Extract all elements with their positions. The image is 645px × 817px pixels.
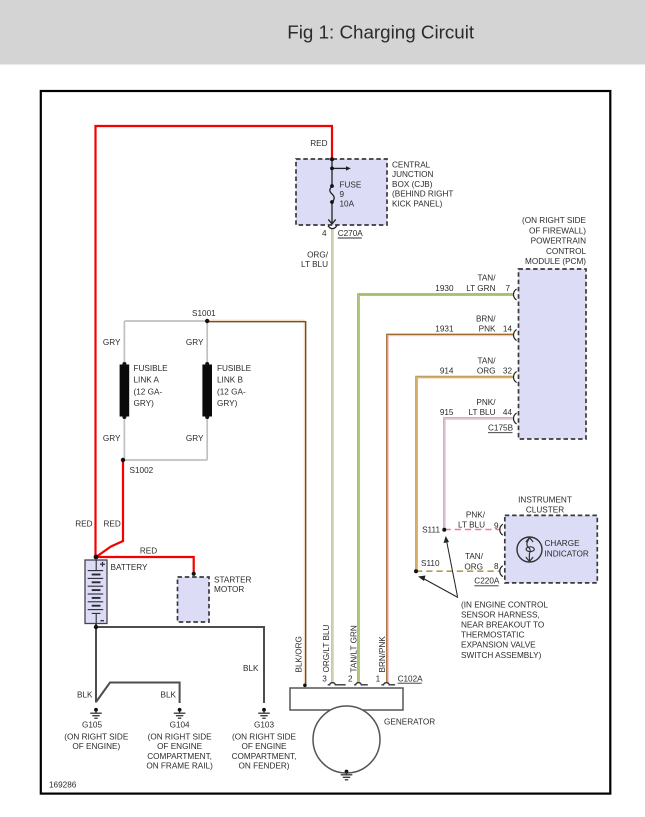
svg-text:S111: S111	[422, 526, 440, 535]
svg-text:INDICATOR: INDICATOR	[545, 549, 589, 558]
svg-text:POWERTRAIN: POWERTRAIN	[531, 237, 586, 246]
svg-text:TAN/: TAN/	[477, 274, 496, 283]
svg-text:BLK: BLK	[77, 691, 93, 700]
svg-text:C102A: C102A	[398, 674, 424, 683]
svg-text:GENERATOR: GENERATOR	[384, 718, 435, 727]
svg-text:(ON RIGHT SIDE: (ON RIGHT SIDE	[148, 733, 213, 742]
svg-text:STARTER: STARTER	[214, 576, 252, 585]
svg-text:ORG: ORG	[464, 562, 483, 571]
svg-text:S110: S110	[421, 559, 440, 568]
svg-text:ON FENDER): ON FENDER)	[239, 762, 290, 771]
svg-text:FUSIBLE: FUSIBLE	[134, 364, 169, 373]
svg-text:BRN/PNK: BRN/PNK	[378, 636, 387, 673]
svg-text:PNK/: PNK/	[476, 398, 496, 407]
svg-text:915: 915	[440, 408, 454, 417]
svg-text:C220A: C220A	[474, 577, 500, 586]
svg-text:14: 14	[503, 325, 513, 334]
svg-text:EXPANSION VALVE: EXPANSION VALVE	[461, 641, 536, 650]
svg-text:KICK PANEL): KICK PANEL)	[392, 199, 443, 208]
svg-text:RED: RED	[104, 520, 121, 529]
svg-text:NEAR BREAKOUT TO: NEAR BREAKOUT TO	[461, 621, 544, 630]
svg-text:TAN/LT GRN: TAN/LT GRN	[350, 625, 359, 672]
svg-text:OF FIREWALL): OF FIREWALL)	[529, 226, 586, 235]
svg-text:RED: RED	[310, 139, 327, 148]
svg-text:1930: 1930	[435, 284, 454, 293]
svg-text:9: 9	[340, 190, 345, 199]
svg-text:GRY: GRY	[103, 434, 121, 443]
svg-text:(12 GA-: (12 GA-	[217, 387, 246, 396]
svg-text:S1002: S1002	[130, 466, 154, 475]
svg-text:G103: G103	[254, 721, 274, 730]
svg-text:JUNCTION: JUNCTION	[392, 170, 433, 179]
svg-text:914: 914	[440, 367, 454, 376]
svg-text:TAN/: TAN/	[465, 552, 484, 561]
svg-text:44: 44	[503, 408, 513, 417]
svg-text:BLK: BLK	[243, 664, 259, 673]
svg-text:G104: G104	[170, 721, 190, 730]
svg-text:(IN ENGINE CONTROL: (IN ENGINE CONTROL	[461, 600, 548, 609]
svg-text:PNK/: PNK/	[466, 511, 486, 520]
svg-text:(ON RIGHT SIDE: (ON RIGHT SIDE	[64, 733, 129, 742]
svg-text:RED: RED	[75, 520, 92, 529]
svg-text:MOTOR: MOTOR	[214, 585, 244, 594]
svg-text:LT GRN: LT GRN	[466, 284, 495, 293]
svg-text:CENTRAL: CENTRAL	[392, 161, 431, 170]
svg-text:OF ENGINE: OF ENGINE	[157, 742, 203, 751]
svg-text:OF ENGINE: OF ENGINE	[241, 742, 287, 751]
svg-text:ON FRAME RAIL): ON FRAME RAIL)	[146, 762, 213, 771]
svg-text:LT BLU: LT BLU	[458, 521, 485, 530]
svg-text:GRY: GRY	[103, 338, 121, 347]
svg-text:CLUSTER: CLUSTER	[526, 505, 564, 514]
svg-text:BATTERY: BATTERY	[111, 563, 149, 572]
svg-text:GRY): GRY)	[134, 399, 155, 408]
svg-text:INSTRUMENT: INSTRUMENT	[518, 496, 572, 505]
svg-text:9: 9	[494, 521, 499, 530]
svg-text:SWITCH ASSEMBLY): SWITCH ASSEMBLY)	[461, 651, 542, 660]
svg-text:GRY: GRY	[186, 338, 204, 347]
svg-text:32: 32	[503, 367, 513, 376]
svg-text:(12 GA-: (12 GA-	[134, 387, 163, 396]
svg-text:BLK/ORG: BLK/ORG	[295, 636, 304, 672]
svg-text:RED: RED	[140, 547, 157, 556]
svg-text:(ON RIGHT SIDE: (ON RIGHT SIDE	[522, 216, 587, 225]
svg-text:2: 2	[348, 674, 353, 683]
svg-text:ORG/: ORG/	[307, 251, 329, 260]
svg-text:FUSE: FUSE	[340, 181, 362, 190]
svg-text:169286: 169286	[49, 781, 77, 790]
svg-text:ORG/LT BLU: ORG/LT BLU	[322, 624, 331, 672]
svg-text:MODULE (PCM): MODULE (PCM)	[525, 257, 586, 266]
svg-text:COMPARTMENT,: COMPARTMENT,	[147, 752, 212, 761]
svg-text:CONTROL: CONTROL	[546, 247, 586, 256]
svg-text:TAN/: TAN/	[477, 356, 496, 365]
svg-text:(ON RIGHT SIDE: (ON RIGHT SIDE	[232, 733, 297, 742]
svg-text:FUSIBLE: FUSIBLE	[217, 364, 252, 373]
svg-text:LT BLU: LT BLU	[469, 408, 496, 417]
svg-text:C175B: C175B	[488, 424, 514, 433]
svg-text:BLK: BLK	[161, 691, 177, 700]
svg-text:Fig 1: Charging Circuit: Fig 1: Charging Circuit	[287, 22, 475, 43]
svg-text:8: 8	[494, 562, 499, 571]
svg-text:PNK: PNK	[479, 325, 496, 334]
svg-text:4: 4	[322, 229, 327, 238]
svg-text:GRY): GRY)	[217, 399, 238, 408]
svg-text:BOX (CJB): BOX (CJB)	[392, 180, 433, 189]
svg-text:1931: 1931	[435, 325, 454, 334]
svg-text:OF ENGINE): OF ENGINE)	[72, 742, 120, 751]
svg-text:C270A: C270A	[338, 229, 364, 238]
svg-text:LINK A: LINK A	[134, 376, 160, 385]
svg-text:7: 7	[505, 284, 510, 293]
svg-text:ORG: ORG	[477, 367, 496, 376]
svg-text:COMPARTMENT,: COMPARTMENT,	[232, 752, 297, 761]
svg-text:1: 1	[376, 674, 381, 683]
svg-text:THERMOSTATIC: THERMOSTATIC	[461, 631, 524, 640]
svg-text:S1001: S1001	[192, 309, 216, 318]
svg-text:G105: G105	[82, 721, 102, 730]
svg-text:SENSOR HARNESS,: SENSOR HARNESS,	[461, 610, 540, 619]
svg-text:LINK B: LINK B	[217, 376, 243, 385]
svg-text:10A: 10A	[340, 199, 355, 208]
svg-text:LT BLU: LT BLU	[301, 260, 328, 269]
svg-text:CHARGE: CHARGE	[545, 539, 581, 548]
svg-text:3: 3	[322, 674, 327, 683]
svg-text:(BEHIND RIGHT: (BEHIND RIGHT	[392, 190, 453, 199]
svg-text:GRY: GRY	[186, 434, 204, 443]
svg-text:BRN/: BRN/	[476, 314, 496, 323]
